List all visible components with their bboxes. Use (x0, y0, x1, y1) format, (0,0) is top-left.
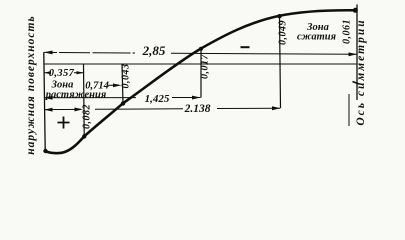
dimension 2,138 segment c (217, 107, 280, 109)
underline of Ось (348, 94, 350, 126)
svg-text:0,082: 0,082 (82, 104, 93, 129)
zero axis line (44, 63, 358, 65)
svg-text:сжатия: сжатия (297, 32, 337, 43)
stress curve (46, 10, 356, 153)
dimension 2,138 segment b (95, 108, 183, 111)
svg-text:Ось симметрии: Ось симметрии (355, 18, 367, 125)
axis of symmetry vertical line (356, 5, 358, 101)
arrowhead left of 2,138 (44, 108, 53, 112)
svg-text:2.138: 2.138 (184, 103, 211, 115)
arrowhead right of 1,425 (192, 96, 201, 100)
svg-text:0,061: 0,061 (342, 19, 353, 44)
arrowhead left of 1,425 (44, 96, 53, 100)
tick on symmetry axis (353, 82, 360, 85)
plus sign in tension zone (58, 117, 70, 129)
node dot at curve end (353, 8, 358, 13)
left border line (outer surface) (44, 52, 45, 150)
svg-text:0,357: 0,357 (49, 68, 75, 79)
dimension 1,425 right segment (172, 97, 201, 99)
dimension 2,138 segment a (44, 108, 81, 110)
arrowhead right of 2,85 (349, 52, 358, 56)
svg-text:0,714: 0,714 (85, 81, 109, 92)
dimension 2,85 line left segment (44, 51, 135, 54)
node dot on curve at 0,357 (82, 134, 86, 138)
svg-text:2,85: 2,85 (142, 43, 166, 58)
ordinate line at 1,425 (value 0,017) (200, 49, 202, 98)
dimension 2,85 line right segment (171, 53, 357, 54)
arrowhead mid of 2,138 at ordinate 0,082 (75, 108, 83, 112)
arrowhead left of 2,85 (44, 51, 53, 55)
dimension 1,425 left segment (44, 97, 136, 99)
dimension 0,357 left stub with arrow (44, 71, 51, 74)
ordinate line at 0,357 (value 0,082) (83, 64, 86, 136)
minus sign in compression zone (241, 46, 250, 48)
ordinate line at 2,138 (value 0,049) (280, 16, 281, 108)
arrow 0,714 pointing to ordinate (108, 84, 119, 86)
svg-text:0,049: 0,049 (278, 20, 289, 45)
svg-text:0,043: 0,043 (121, 64, 132, 89)
node dot on curve at 1,425 (199, 47, 203, 51)
svg-text:1,425: 1,425 (145, 93, 170, 105)
node dot on curve at 2,138 (277, 14, 281, 18)
dimension 0,357 right stub with arrow (74, 72, 84, 74)
node dot at curve start (43, 149, 47, 153)
ordinate line at 0,714 (value 0,043) (122, 64, 123, 103)
svg-text:0,017: 0,017 (200, 54, 211, 80)
arrowhead right of 2,138 (272, 106, 280, 110)
svg-text:наружная поверхность: наружная поверхность (25, 15, 37, 154)
node dot on curve at 0,714 (121, 101, 125, 105)
